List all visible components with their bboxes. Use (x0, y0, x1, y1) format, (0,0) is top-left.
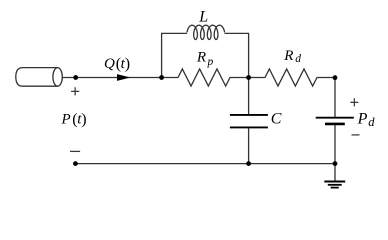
svg-text:P: P (61, 111, 71, 127)
svg-text:C: C (271, 111, 282, 128)
svg-text:): ) (81, 111, 86, 128)
svg-text:R: R (196, 50, 206, 66)
svg-text:L: L (198, 9, 208, 26)
svg-text:Q: Q (104, 56, 115, 72)
svg-text:R: R (283, 48, 293, 64)
svg-text:): ) (125, 56, 130, 73)
svg-text:d: d (295, 53, 301, 65)
svg-text:p: p (207, 56, 214, 68)
svg-text:d: d (368, 115, 375, 129)
svg-text:P: P (357, 111, 368, 128)
